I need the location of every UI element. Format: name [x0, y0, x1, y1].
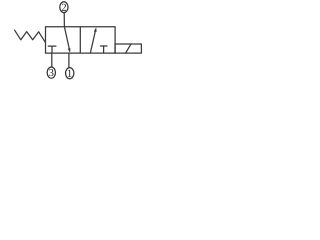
- port 2 circle label: [60, 2, 68, 13]
- port 1 circle label: [66, 68, 74, 79]
- blocked port T (left box, port 3): [48, 45, 56, 47]
- valve body box (both positions): [46, 27, 116, 53]
- blocked port T (right box): [100, 45, 107, 47]
- port 3 circle label: [47, 67, 55, 78]
- port 3 line (bottom left): [51, 53, 53, 67]
- port 2 line (top): [63, 13, 65, 27]
- position divider: [79, 27, 81, 53]
- flow path arrow (right box, up): [90, 30, 95, 53]
- spring (return spring, left): [15, 30, 46, 42]
- solenoid diagonal: [126, 44, 131, 53]
- port 1 line (bottom): [68, 53, 70, 67]
- flow path arrow (left box, 2 to 1): [65, 27, 70, 50]
- solenoid box: [115, 44, 141, 53]
- 3/2-way pneumatic valve schematic: [0, 0, 160, 90]
